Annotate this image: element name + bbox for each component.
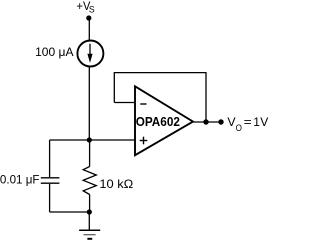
svg-text:V: V bbox=[227, 115, 235, 129]
svg-text:S: S bbox=[89, 5, 95, 15]
svg-text:100 μA: 100 μA bbox=[35, 45, 73, 59]
svg-text:V: V bbox=[260, 115, 268, 129]
svg-text:10 kΩ: 10 kΩ bbox=[99, 177, 133, 191]
svg-text:1: 1 bbox=[253, 115, 260, 129]
svg-text:=: = bbox=[244, 115, 252, 129]
svg-text:O: O bbox=[236, 123, 242, 133]
svg-text:OPA602: OPA602 bbox=[136, 115, 180, 129]
svg-text:0.01 μF: 0.01 μF bbox=[0, 172, 39, 186]
